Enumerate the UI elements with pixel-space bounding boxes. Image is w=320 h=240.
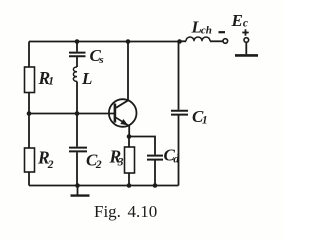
ground at Ec <box>235 54 258 57</box>
wire base node to R2 <box>28 114 30 149</box>
wire base node to C2 <box>76 114 78 147</box>
wire R3 to bottom rail <box>128 173 130 186</box>
wire Cd to bottom rail <box>154 161 156 186</box>
svg-text:Cs: Cs <box>90 46 104 66</box>
wire L to base node <box>76 81 78 113</box>
terminal plus of Ec <box>244 38 249 43</box>
ground at C2 node <box>71 186 90 196</box>
polarity minus sign <box>219 31 226 33</box>
inductor L <box>73 67 77 81</box>
wire rail to Cs <box>76 42 78 52</box>
polarity plus sign <box>242 29 248 35</box>
svg-text:R3: R3 <box>109 147 124 169</box>
svg-text:Lch: Lch <box>191 18 212 37</box>
wire base horizontal <box>29 113 116 115</box>
svg-text:C2: C2 <box>86 151 102 172</box>
svg-text:L: L <box>81 69 92 88</box>
wire collector to top rail <box>127 42 129 101</box>
resistor R1 <box>25 67 35 93</box>
junction bottom rail / C2-ground <box>75 183 80 188</box>
capacitor C1 <box>171 111 188 115</box>
terminal minus of Ec <box>223 39 228 44</box>
wire C1 to bottom rail <box>178 116 180 186</box>
junction bottom rail / R3 <box>127 183 132 188</box>
capacitor Cd <box>147 156 163 160</box>
svg-text:C1: C1 <box>192 107 208 127</box>
capacitor C2 <box>69 148 87 152</box>
junction base wire / left wire <box>27 111 32 116</box>
wire bottom rail <box>29 185 179 187</box>
wire emitter to node <box>128 126 130 137</box>
wire R1 to base node <box>28 93 30 114</box>
wire R2 to bottom rail <box>28 172 30 186</box>
transistor Q1 <box>109 99 137 127</box>
svg-text:R1: R1 <box>38 68 54 88</box>
wire emitter node to R3 <box>128 137 130 148</box>
wire left vertical upper (rail to R1) <box>28 42 30 68</box>
junction top rail / C1-Lch node <box>177 39 182 44</box>
svg-text:R2: R2 <box>37 148 54 172</box>
inductor Lch <box>180 37 223 41</box>
svg-text:Ec: Ec <box>231 11 248 30</box>
wire C2 to bottom rail <box>76 152 78 185</box>
svg-text:4.10: 4.10 <box>128 202 158 221</box>
capacitor Cs <box>69 53 86 57</box>
wire emitter node to Cd branch <box>129 137 155 155</box>
junction top rail / collector <box>126 39 131 44</box>
junction base wire / L-C2 branch <box>75 111 80 116</box>
resistor R2 <box>25 148 35 172</box>
wire Ec terminal to ground <box>245 43 247 55</box>
junction bottom rail / Cd <box>153 183 158 188</box>
junction emitter node <box>127 134 132 139</box>
svg-text:Cd: Cd <box>164 146 180 166</box>
junction top rail / Cs branch <box>75 39 80 44</box>
svg-text:Fig.: Fig. <box>94 202 121 221</box>
wire C1 branch upper <box>178 42 180 110</box>
wire top rail <box>29 41 180 43</box>
wire Cs to L <box>76 57 78 67</box>
resistor R3 <box>125 147 135 173</box>
